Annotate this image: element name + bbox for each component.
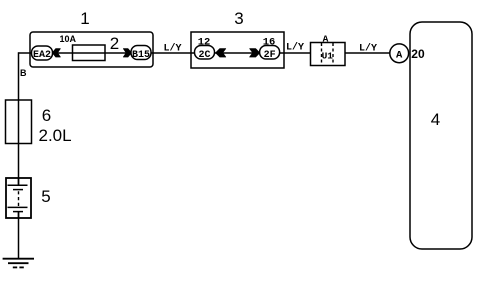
arrow toward 2F: [250, 49, 260, 57]
svg-text:1: 1: [80, 9, 89, 28]
connector EA2: [32, 46, 53, 61]
svg-text:A: A: [396, 50, 403, 62]
wire: left vertical drop from node B to ground: [18, 52, 20, 185]
svg-text:U1: U1: [322, 51, 334, 62]
svg-text:2F: 2F: [264, 50, 276, 61]
wire: dashed section inside battery: [18, 191, 20, 206]
svg-text:10A: 10A: [60, 34, 77, 44]
ground symbol: [3, 259, 34, 268]
svg-text:L/Y: L/Y: [359, 43, 377, 55]
svg-text:EA2: EA2: [33, 50, 51, 61]
svg-text:20: 20: [411, 47, 425, 61]
svg-text:3: 3: [234, 9, 243, 28]
fuse 10A: [73, 45, 106, 61]
wire: battery to ground: [18, 212, 20, 259]
arrow toward 2C: [216, 49, 226, 57]
battery cell plates: [8, 178, 28, 218]
component box 1 (fuse box): [30, 32, 153, 67]
svg-text:2: 2: [110, 34, 119, 53]
component 6 (2.0L engine fusible link): [6, 100, 32, 144]
svg-text:L/Y: L/Y: [286, 42, 304, 54]
component box 3 (joint connector): [191, 32, 284, 68]
in-line connector U1: [311, 43, 346, 66]
connector 2C: [195, 46, 215, 62]
component box 4 (ECU): [410, 22, 472, 249]
arrow toward B15: [123, 49, 131, 57]
svg-text:4: 4: [431, 110, 440, 129]
svg-text:5: 5: [41, 187, 50, 206]
svg-text:L/Y: L/Y: [163, 43, 181, 55]
svg-text:2C: 2C: [198, 50, 210, 61]
arrow toward EA2: [52, 49, 60, 57]
battery 5 box: [6, 178, 31, 218]
wire: main horizontal net L/Y at y=53: [19, 52, 391, 54]
connector 2F: [260, 46, 280, 62]
connector B15: [131, 46, 151, 62]
connector circle A on component 4: [390, 44, 409, 63]
svg-text:B: B: [20, 68, 27, 78]
svg-text:6: 6: [42, 106, 51, 125]
svg-text:B15: B15: [132, 50, 150, 61]
svg-text:2.0L: 2.0L: [39, 126, 72, 145]
